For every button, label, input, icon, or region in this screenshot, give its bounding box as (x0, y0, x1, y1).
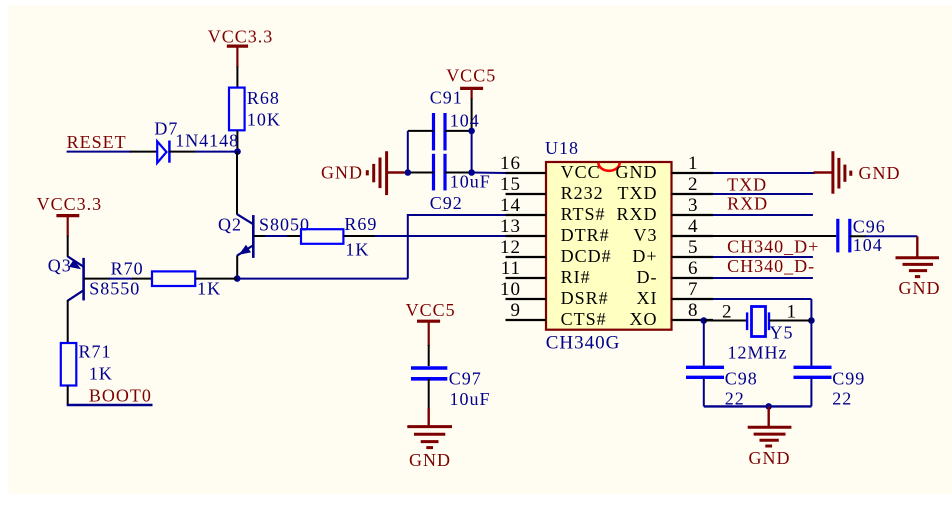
svg-text:15: 15 (500, 174, 521, 195)
node D junction (C92/pin16 net) (468, 169, 475, 176)
wire node D to pin 16 (472, 172, 506, 175)
wire node A to Q2 collector (236, 152, 238, 215)
svg-text:1: 1 (688, 153, 699, 174)
wire C99 to bottom rail (810, 377, 812, 406)
node G junction (pin 8/crystal pin2/C98) (701, 317, 708, 324)
svg-text:GND: GND (749, 448, 791, 468)
wire node F to C99 (810, 321, 812, 366)
wire C92 right lead (445, 172, 472, 174)
svg-text:U18: U18 (545, 138, 579, 158)
svg-text:XO: XO (630, 309, 658, 329)
wire jog vertical (407, 214, 409, 279)
ground GND (left of C91/C92) (321, 151, 405, 195)
wire caps left verticals (407, 131, 409, 173)
svg-text:Q3: Q3 (48, 256, 72, 276)
svg-text:DCD#: DCD# (561, 246, 612, 266)
svg-text:GND: GND (899, 278, 941, 298)
svg-text:14: 14 (500, 195, 521, 216)
svg-text:104: 104 (450, 110, 480, 130)
ground GND (crystal) (748, 406, 792, 468)
wire pin 4 to C96 (713, 235, 836, 237)
svg-text:7: 7 (688, 279, 699, 300)
node A junction (D7/R68/Q2 collector) (234, 148, 241, 155)
svg-text:RTS#: RTS# (561, 204, 606, 224)
wire pin 7 (XI) jog (713, 299, 811, 321)
svg-text:RI#: RI# (561, 267, 591, 287)
svg-text:RXD: RXD (727, 194, 768, 214)
svg-text:12MHz: 12MHz (728, 343, 788, 363)
svg-text:4: 4 (688, 216, 699, 237)
svg-text:16: 16 (500, 153, 521, 174)
svg-text:10: 10 (500, 279, 521, 300)
net label CH340_D+ (727, 236, 819, 256)
svg-text:R71: R71 (79, 342, 112, 362)
wire D7 cathode to node A (169, 151, 238, 153)
svg-text:R68: R68 (247, 88, 280, 108)
wire C91 right lead (445, 130, 472, 132)
svg-text:CH340G: CH340G (546, 333, 621, 354)
wire Q3 collector to R71 (67, 300, 69, 343)
resistor R68 (229, 88, 281, 131)
wire pin 1 to GND (713, 172, 815, 174)
node E junction (GND/caps) (405, 169, 412, 176)
wire R71 to BOOT0 (67, 386, 69, 406)
svg-text:RXD: RXD (616, 204, 657, 224)
svg-text:BOOT0: BOOT0 (89, 386, 152, 406)
IC U18 CH340G (545, 138, 672, 354)
svg-text:Y5: Y5 (770, 323, 794, 343)
svg-text:R69: R69 (344, 214, 377, 234)
svg-text:2: 2 (688, 174, 699, 195)
svg-text:VCC3.3: VCC3.3 (37, 194, 103, 214)
svg-text:1K: 1K (197, 279, 221, 299)
wire Q2 base to R69 (253, 235, 301, 237)
svg-text:XI: XI (637, 288, 658, 308)
power VCC3.3 (left, Q3 emitter) (37, 194, 103, 237)
svg-text:GND: GND (616, 162, 658, 182)
wire R70 to node B (195, 278, 237, 280)
power VCC3.3 (top, R68 pull-up) (208, 27, 274, 68)
svg-text:V3: V3 (634, 225, 658, 245)
svg-text:104: 104 (853, 235, 883, 255)
wire crystal to node F (769, 320, 811, 322)
svg-text:GND: GND (321, 162, 363, 182)
capacitor C97 (411, 368, 491, 409)
wire pin8 to crystal (704, 320, 747, 322)
svg-text:C92: C92 (430, 193, 463, 213)
svg-text:6: 6 (688, 258, 699, 279)
svg-text:1K: 1K (345, 240, 369, 260)
wire C91 left lead (408, 130, 434, 132)
svg-text:C98: C98 (725, 368, 758, 388)
svg-text:CTS#: CTS# (561, 309, 607, 329)
svg-text:1N4148: 1N4148 (175, 131, 239, 151)
power VCC5 (C97) (406, 300, 456, 346)
wire C92 left lead (408, 172, 434, 174)
wire VCC5 to C97 (428, 345, 430, 366)
ground GND (below C97) (407, 427, 452, 470)
svg-text:D+: D+ (632, 246, 657, 266)
wire R68 to node A (236, 130, 238, 151)
capacitor C98 (686, 367, 758, 408)
transistor Q3 S8550 (48, 256, 141, 301)
svg-text:13: 13 (500, 216, 521, 237)
svg-text:DSR#: DSR# (561, 288, 609, 308)
node F junction (crystal pin1/C99/XI) (808, 317, 815, 324)
svg-text:S8050: S8050 (259, 215, 310, 235)
svg-text:1: 1 (787, 302, 798, 323)
svg-text:10K: 10K (247, 110, 281, 130)
right pin stubs 1-8 (672, 153, 714, 321)
diode D7 1N4148 (154, 118, 239, 163)
svg-text:R70: R70 (111, 258, 144, 278)
svg-text:10uF: 10uF (450, 389, 491, 409)
node B junction (Q2 emitter/R70/net) (234, 275, 241, 282)
svg-text:8: 8 (688, 300, 699, 321)
wire node B to jog corner (237, 278, 408, 280)
capacitor C92 (430, 154, 491, 213)
resistor R71 (61, 342, 113, 386)
svg-text:1K: 1K (89, 364, 113, 384)
net label RXD (727, 194, 768, 214)
capacitor C96 (838, 216, 886, 255)
svg-text:11: 11 (501, 258, 521, 279)
wire Q3 base to R70 (84, 278, 152, 280)
wire VCC3.3 to Q3 emitter (67, 236, 69, 257)
wire CH340_D+ (pin 5) (713, 256, 813, 258)
wire node G to C98 (703, 321, 705, 366)
ground GND (C96) (896, 236, 941, 298)
wire VCC5 to node C (471, 99, 473, 131)
svg-text:9: 9 (511, 300, 522, 321)
svg-text:CH340_D+: CH340_D+ (727, 236, 819, 256)
svg-text:VCC3.3: VCC3.3 (208, 27, 274, 47)
svg-text:C97: C97 (449, 368, 482, 388)
transistor Q2 S8050 (218, 214, 310, 258)
crystal Y5 12MHz (722, 302, 797, 363)
capacitor C91 (430, 88, 480, 151)
node C junction (VCC5/C91) (468, 128, 475, 135)
wire R69 to pin 13 (crosses jog, no junction) (343, 235, 505, 237)
wire C96 to GND corner (850, 235, 918, 237)
net label TXD (727, 174, 767, 194)
wire TXD (pin 2) (713, 193, 813, 195)
svg-text:C91: C91 (430, 88, 463, 108)
svg-text:CH340_D-: CH340_D- (727, 256, 815, 276)
svg-text:GND: GND (859, 163, 901, 183)
svg-text:VCC: VCC (561, 162, 601, 182)
svg-text:R232: R232 (561, 183, 604, 203)
left pin stubs 16-9 (500, 153, 546, 321)
net label RESET (67, 132, 127, 152)
power VCC5 (top) (446, 66, 496, 100)
svg-text:12: 12 (500, 237, 521, 258)
wire RESET to D7 (67, 151, 158, 153)
svg-text:3: 3 (688, 195, 699, 216)
capacitor C99 (794, 367, 866, 408)
svg-text:C99: C99 (832, 368, 865, 388)
wire CH340_D- (pin 6) (713, 277, 813, 279)
resistor R70 (111, 258, 222, 298)
svg-text:VCC5: VCC5 (406, 300, 456, 320)
svg-text:TXD: TXD (727, 174, 767, 194)
svg-text:2: 2 (722, 302, 733, 323)
wire C98 to bottom rail (703, 377, 705, 406)
ground GND (pin 1) (814, 151, 901, 194)
net label CH340_D- (727, 256, 815, 276)
svg-text:C96: C96 (853, 216, 886, 236)
svg-text:GND: GND (409, 450, 451, 470)
svg-text:D-: D- (637, 267, 658, 287)
wire RXD (pin 3) (713, 214, 813, 216)
svg-text:VCC5: VCC5 (446, 66, 496, 86)
svg-text:Q2: Q2 (218, 215, 242, 235)
svg-text:RESET: RESET (67, 132, 127, 152)
wire BOOT0 (67, 404, 153, 406)
wire caps right vertical (471, 131, 473, 173)
wire bottom rail (704, 405, 812, 407)
net label BOOT0 (89, 386, 152, 406)
wire C97 to GND (428, 379, 430, 426)
svg-text:22: 22 (832, 389, 852, 409)
node H junction (rail/GND) (765, 403, 772, 410)
wire Q2 emitter to node B (236, 255, 238, 278)
svg-text:DTR#: DTR# (561, 225, 610, 245)
resistor R69 (301, 214, 377, 260)
svg-text:S8550: S8550 (89, 279, 140, 299)
wire VCC3.3 to R68 (236, 67, 238, 89)
svg-text:TXD: TXD (618, 183, 658, 203)
wire jog to pin 14 (408, 214, 506, 216)
svg-text:5: 5 (688, 237, 699, 258)
